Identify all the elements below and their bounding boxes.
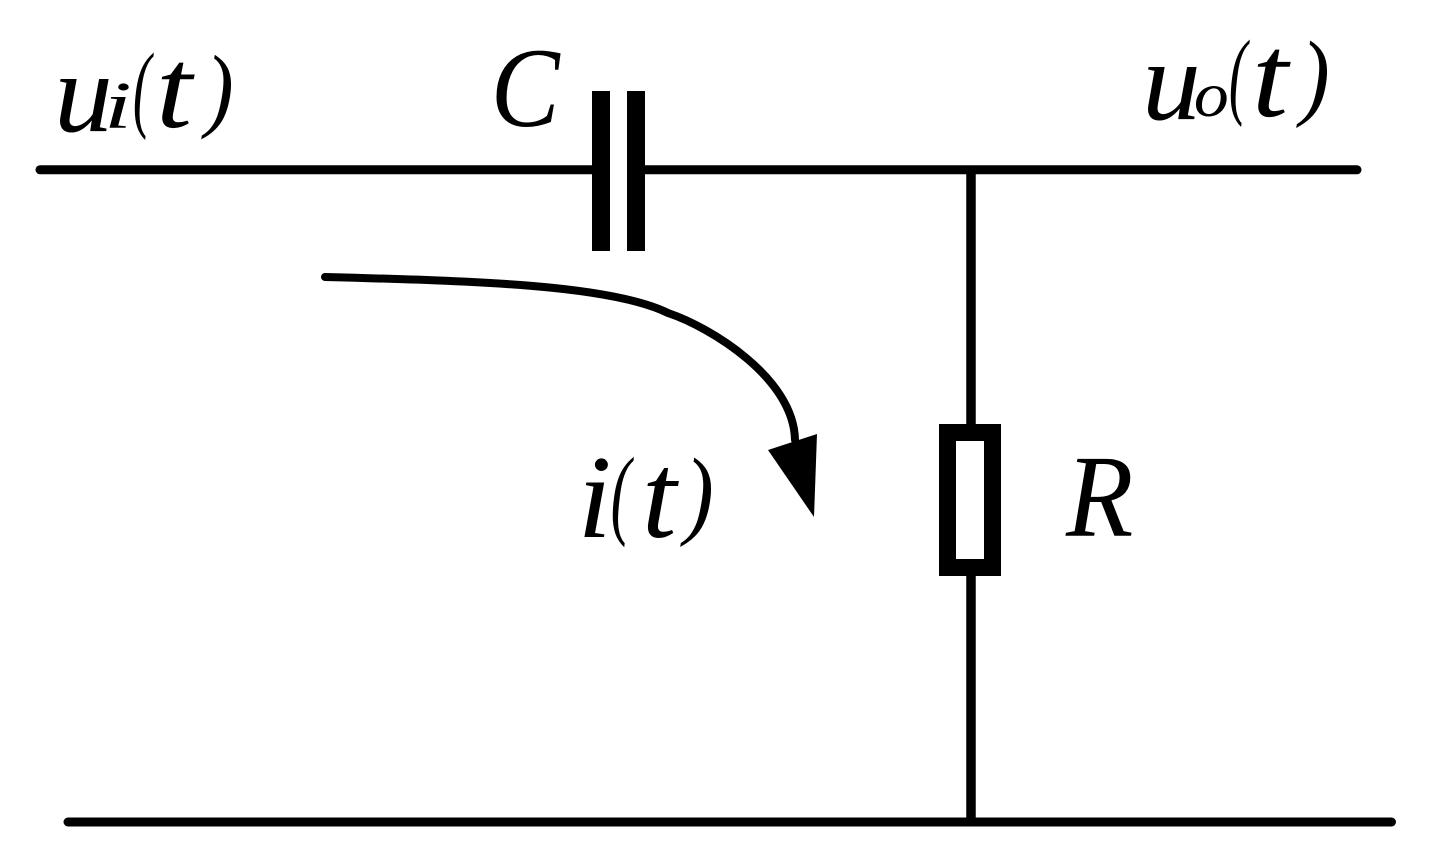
wire vertical (node to resistor to bottom rail) [966,170,976,822]
svg-text:i: i [578,433,612,564]
wire top-left (ui to capacitor) [40,165,596,174]
node label uo(t) : glyph t [1252,11,1291,142]
node label ui(t) : glyph ) [201,37,234,140]
wire top-right (capacitor to uo) [644,165,1357,174]
node label uo(t) : glyph u [1142,18,1201,144]
svg-text:t: t [156,26,195,152]
node label ui(t) : subscript i [104,69,132,143]
resistor R label [1065,432,1133,562]
svg-text:u: u [1142,18,1201,144]
svg-text:R: R [1065,432,1133,562]
svg-text:(: ( [1229,20,1251,127]
node label uo(t) : glyph ) [1296,23,1330,130]
svg-text:o: o [1194,60,1229,131]
svg-text:t: t [642,429,679,564]
capacitor C left plate [592,91,610,251]
current label i(t) : glyph i [578,433,612,564]
svg-text:(: ( [133,33,155,140]
node label uo(t) : glyph ( [1229,20,1251,127]
node label ui(t) : glyph u [54,30,113,156]
resistor R body [948,433,993,568]
svg-text:C: C [491,24,561,151]
current arrow i(t) curve [325,277,795,440]
node label uo(t) : subscript o [1194,60,1229,131]
current label i(t) : glyph t [642,429,679,564]
node label ui(t) : glyph ( [133,33,155,140]
capacitor C right plate [627,91,645,251]
svg-text:i: i [104,69,132,143]
current label i(t) : glyph ) [680,439,714,549]
svg-text:): ) [201,37,234,140]
capacitor C label [491,24,561,151]
svg-text:t: t [1252,11,1291,142]
svg-text:(: ( [611,437,634,548]
node label ui(t) : glyph t [156,26,195,152]
wire bottom rail [68,818,1392,827]
svg-text:): ) [680,439,714,549]
svg-text:): ) [1296,23,1330,130]
current arrow i(t) head [768,434,817,517]
current label i(t) : glyph ( [611,437,634,548]
